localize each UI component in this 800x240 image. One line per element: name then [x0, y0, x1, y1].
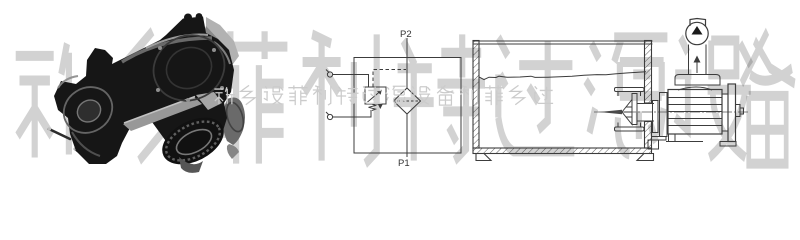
svg-text:P2: P2 [400, 29, 412, 40]
svg-text:P1: P1 [398, 158, 410, 169]
